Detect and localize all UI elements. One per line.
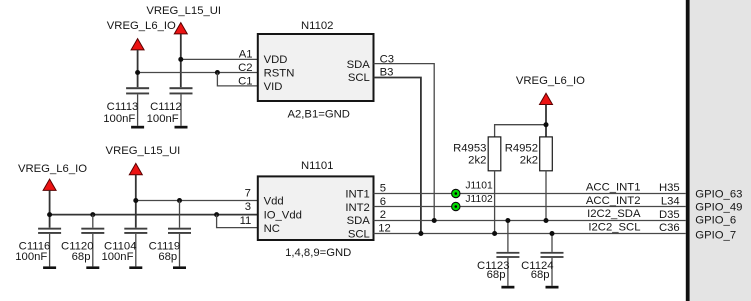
wire A1 net [181, 58, 258, 60]
svg-text:5: 5 [380, 182, 386, 194]
svg-text:VREG_L6_IO: VREG_L6_IO [18, 163, 87, 175]
wire SDA / I2C2_SDA net [374, 220, 686, 222]
svg-text:A2,B1=GND: A2,B1=GND [287, 108, 349, 120]
node junction R4953/SCL [492, 231, 497, 236]
svg-text:GPIO_7: GPIO_7 [695, 229, 736, 241]
svg-text:VDD: VDD [264, 54, 288, 66]
node junction A1/VREG_L15_UI [178, 57, 183, 62]
wire NC pin11 tie branch [217, 215, 258, 228]
capacitor C1120 [61, 228, 104, 267]
capacitor C1119 [149, 228, 191, 267]
svg-text:2k2: 2k2 [520, 155, 538, 167]
wire INT1 / ACC_INT1 net [374, 193, 686, 195]
svg-text:C1113: C1113 [107, 101, 139, 113]
node junction C2/VREG_L6_IO [135, 70, 140, 75]
node junction C1123/SDA [505, 218, 510, 223]
power symbol VREG_L15_UI (top) [146, 5, 221, 87]
svg-text:C1: C1 [238, 75, 252, 87]
capacitor C1104 [101, 228, 147, 267]
wire SDA/C3 to I2C2_SDA [374, 64, 435, 221]
power symbol VREG_L6_IO (pull-ups) [516, 75, 585, 137]
svg-text:2: 2 [380, 209, 386, 221]
ground (C1104) [129, 266, 142, 269]
svg-text:GPIO_6: GPIO_6 [695, 214, 736, 226]
svg-text:100nF: 100nF [147, 113, 179, 125]
resistor R4952 [505, 137, 553, 171]
ground (C1123) [501, 286, 514, 289]
power symbol VREG_L15_UI (bottom) [106, 145, 181, 228]
svg-text:SCL: SCL [348, 72, 370, 84]
wire C2 net [138, 72, 258, 74]
wire R4953 to SCL [494, 171, 496, 234]
svg-text:GPIO_49: GPIO_49 [695, 201, 742, 213]
node junction pin7/C1119 [177, 198, 182, 203]
svg-text:C1112: C1112 [150, 101, 182, 113]
svg-text:ACC_INT2: ACC_INT2 [586, 195, 641, 207]
svg-text:1,4,8,9=GND: 1,4,8,9=GND [285, 247, 351, 259]
testpoint J1101 [452, 180, 493, 197]
svg-text:J1101: J1101 [465, 180, 493, 191]
svg-text:100nF: 100nF [103, 113, 135, 125]
node junction pull-up feed [544, 122, 549, 127]
ground (C1124) [546, 286, 559, 289]
svg-text:R4953: R4953 [453, 142, 486, 154]
capacitor C1113 [103, 87, 149, 126]
svg-text:NC: NC [264, 223, 280, 235]
svg-text:68p: 68p [72, 251, 91, 263]
svg-text:Vdd: Vdd [264, 196, 284, 208]
svg-text:2k2: 2k2 [468, 155, 486, 167]
svg-text:VREG_L6_IO: VREG_L6_IO [516, 75, 585, 87]
svg-text:ACC_INT1: ACC_INT1 [586, 181, 641, 193]
capacitor C1124 [521, 234, 563, 286]
node junction R4952/SDA [544, 218, 549, 223]
svg-text:7: 7 [245, 187, 251, 199]
svg-text:INT1: INT1 [345, 188, 369, 200]
power symbol VREG_L6_IO (top left) [107, 20, 176, 87]
node junction C1124/SCL [550, 231, 555, 236]
node junction pin7/VREG_L15_UI [133, 198, 138, 203]
svg-text:R4952: R4952 [505, 142, 538, 154]
GPIO connector bar [686, 0, 751, 301]
wire pull-up feed [495, 125, 546, 137]
IC N1101 [258, 160, 374, 259]
resistor R4953 [453, 137, 501, 171]
svg-text:INT2: INT2 [345, 202, 369, 214]
capacitor C1123 [477, 221, 519, 286]
svg-text:VREG_L15_UI: VREG_L15_UI [146, 5, 221, 17]
svg-text:N1102: N1102 [301, 20, 333, 32]
IC N1102 [258, 20, 374, 120]
svg-text:VID: VID [264, 81, 283, 93]
ground (C1119) [173, 266, 186, 269]
svg-text:3: 3 [245, 201, 251, 213]
svg-text:L34: L34 [661, 195, 680, 207]
svg-text:68p: 68p [158, 251, 177, 263]
svg-text:12: 12 [378, 223, 391, 235]
node junction SDA/C3 [432, 218, 437, 223]
svg-text:H35: H35 [659, 182, 680, 194]
capacitor C1112 [147, 87, 193, 126]
svg-text:68p: 68p [487, 269, 506, 281]
ground (C1112) [175, 126, 188, 129]
svg-text:11: 11 [240, 215, 252, 227]
svg-text:100nF: 100nF [15, 251, 47, 263]
svg-text:100nF: 100nF [101, 251, 133, 263]
svg-text:SCL: SCL [348, 229, 370, 241]
node junction pin3/C1120 [90, 212, 95, 217]
svg-text:C2: C2 [238, 62, 252, 74]
wire R4952 to SDA [545, 171, 547, 221]
svg-text:GPIO_63: GPIO_63 [695, 189, 742, 201]
wire C1 tie branch [217, 73, 257, 86]
ground (C1120) [86, 266, 99, 269]
node junction SCL/B3 [418, 231, 423, 236]
wire SCL / I2C2_SCL net [374, 233, 686, 235]
wire C1119 branch [179, 201, 181, 228]
wire Vdd pin7 net [136, 200, 258, 202]
svg-text:SDA: SDA [347, 59, 371, 71]
svg-text:D35: D35 [659, 209, 680, 221]
wire C1120 branch [92, 215, 94, 228]
power symbol VREG_L6_IO (bottom left) [18, 163, 87, 228]
svg-text:VREG_L15_UI: VREG_L15_UI [106, 145, 181, 157]
svg-text:I2C2_SDA: I2C2_SDA [587, 208, 641, 220]
svg-text:J1102: J1102 [465, 194, 493, 205]
svg-text:C36: C36 [659, 222, 680, 234]
svg-text:I2C2_SCL: I2C2_SCL [588, 222, 640, 234]
svg-text:68p: 68p [531, 269, 550, 281]
ground (C1116) [43, 266, 56, 269]
svg-text:SDA: SDA [347, 215, 371, 227]
svg-text:A1: A1 [239, 49, 253, 61]
node junction pin3/VREG_L6_IO [47, 212, 52, 217]
svg-text:N1101: N1101 [301, 160, 333, 172]
node junction pin3/pin11 tie [214, 212, 219, 217]
testpoint J1102 [452, 194, 493, 211]
capacitor C1116 [15, 228, 61, 267]
ground (C1113) [131, 126, 144, 129]
node junction C2/C1 tie [215, 70, 220, 75]
wire INT2 / ACC_INT2 net [374, 206, 686, 208]
svg-text:IO_Vdd: IO_Vdd [264, 210, 302, 222]
wire SCL/B3 to I2C2_SCL [374, 78, 421, 234]
svg-text:RSTN: RSTN [264, 68, 295, 80]
wire IO_Vdd pin3 net [50, 214, 258, 216]
svg-text:VREG_L6_IO: VREG_L6_IO [107, 20, 176, 32]
